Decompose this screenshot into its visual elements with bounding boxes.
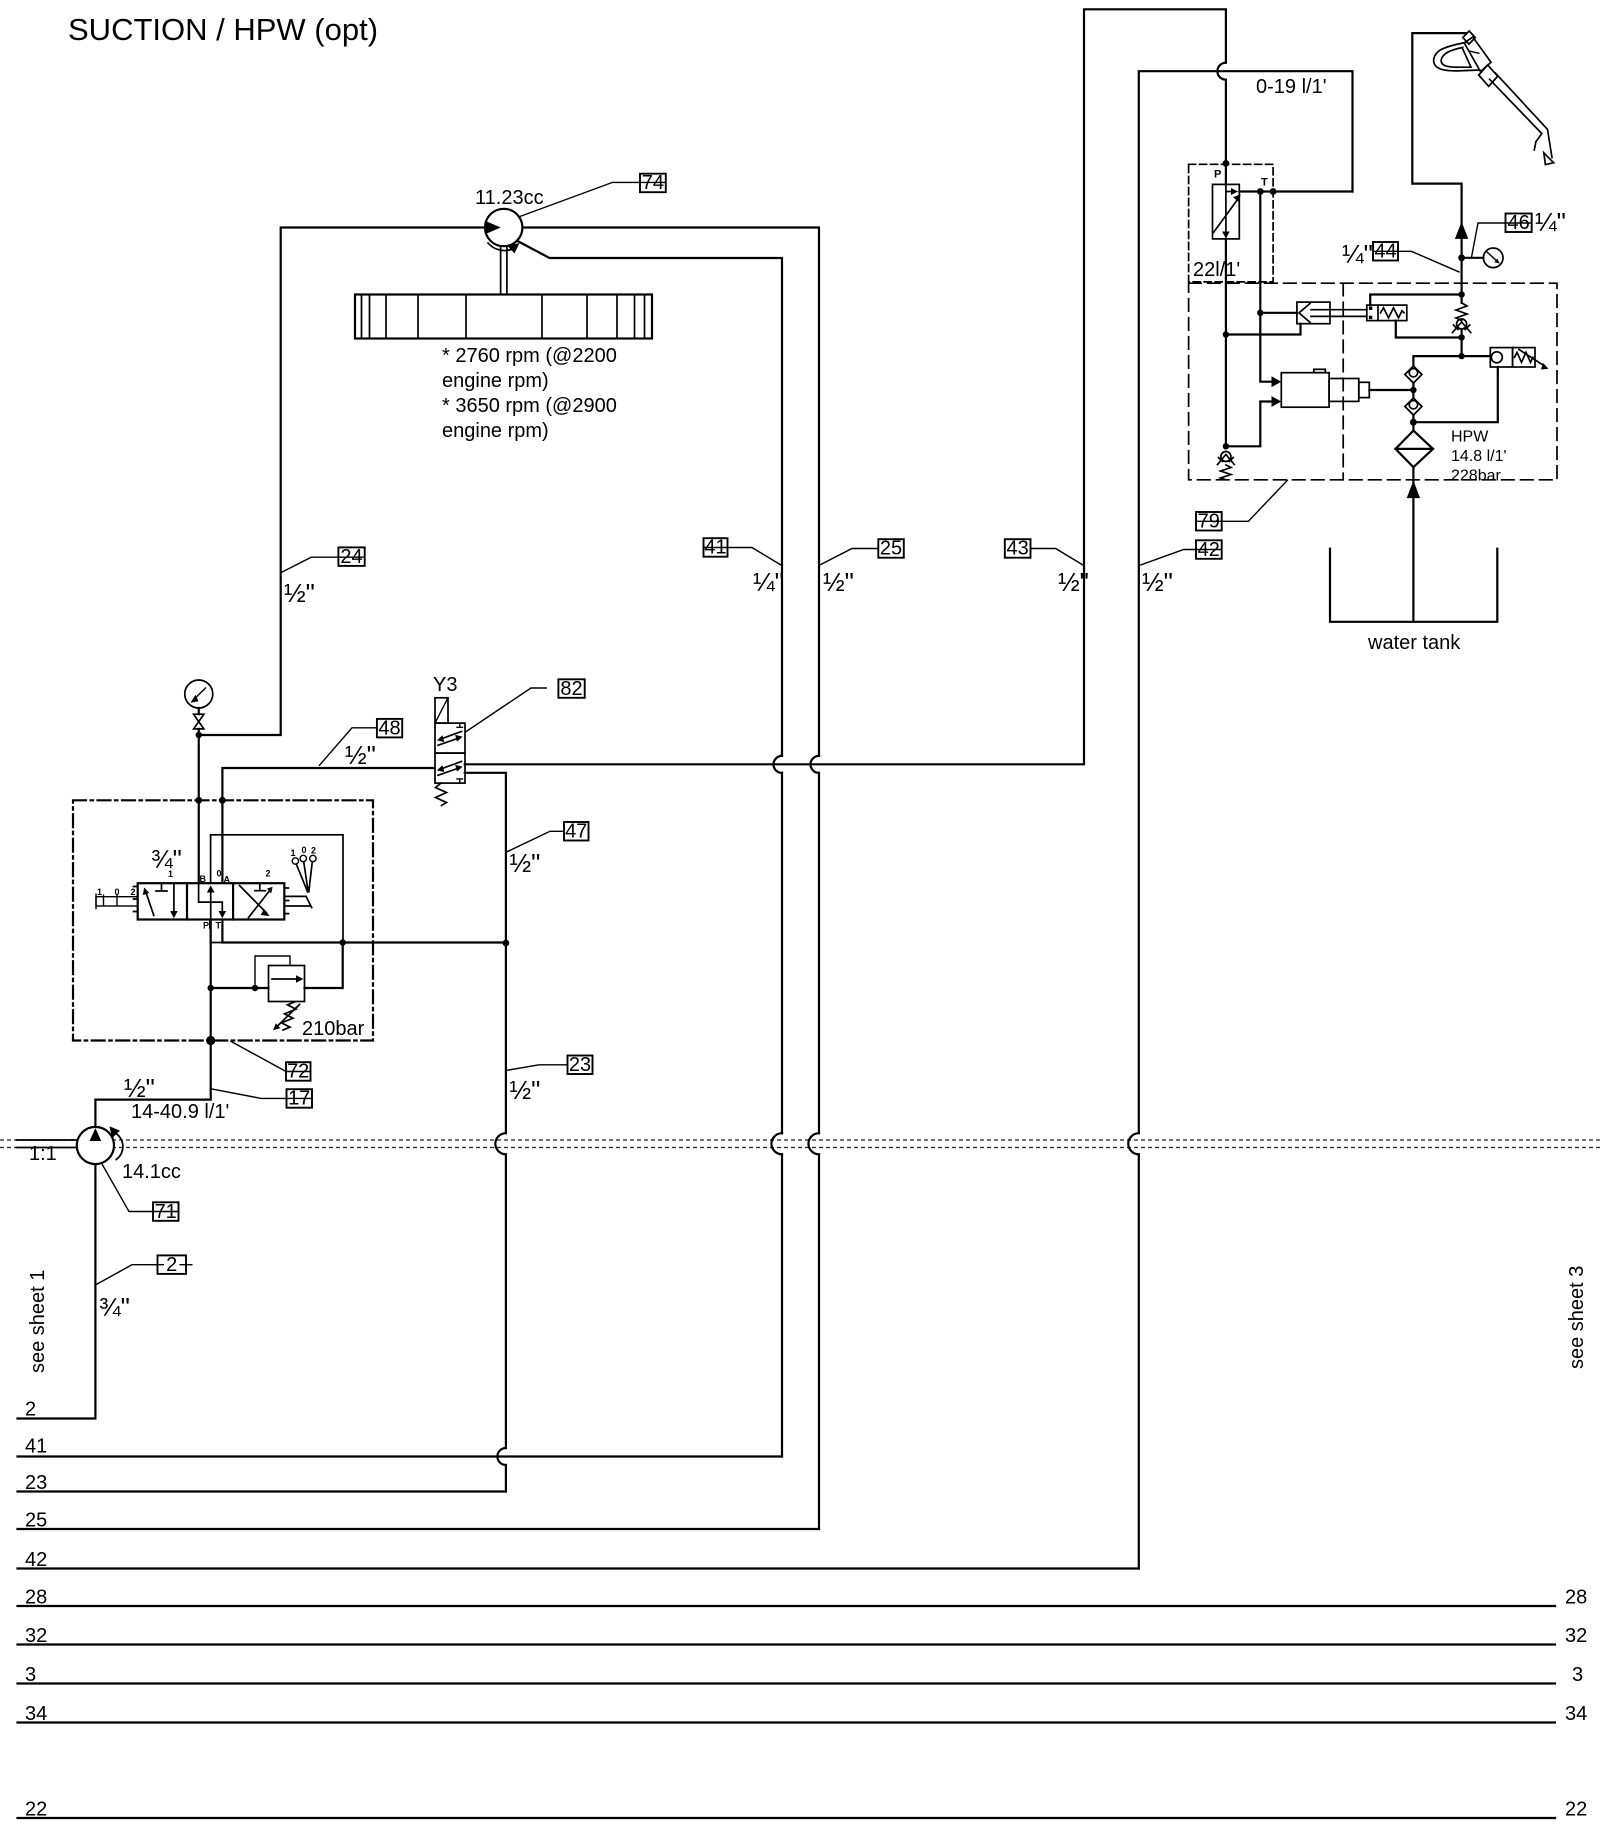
svg-text:11.23cc: 11.23cc [475,187,544,209]
svg-text:0: 0 [115,887,120,897]
svg-text:1:1: 1:1 [29,1143,57,1165]
svg-text:32: 32 [25,1625,47,1647]
svg-text:14.8 l/1': 14.8 l/1' [1451,448,1507,465]
svg-text:48: 48 [378,717,400,739]
svg-text:22: 22 [25,1799,47,1821]
svg-text:14.1cc: 14.1cc [122,1161,181,1183]
svg-text:¼": ¼" [753,567,784,597]
svg-text:32: 32 [1565,1625,1587,1647]
svg-text:74: 74 [642,172,664,194]
svg-text:14-40.9 l/1': 14-40.9 l/1' [131,1101,229,1123]
svg-text:* 2760 rpm (@2200: * 2760 rpm (@2200 [442,345,617,367]
svg-text:42: 42 [25,1549,47,1571]
svg-text:water tank: water tank [1367,632,1461,654]
svg-text:¼": ¼" [1342,239,1373,269]
svg-text:see sheet 1: see sheet 1 [27,1270,49,1373]
svg-text:228bar: 228bar [1451,468,1501,485]
svg-text:2: 2 [25,1399,36,1421]
svg-text:B: B [200,874,207,884]
svg-text:25: 25 [880,538,902,560]
svg-text:¾": ¾" [99,1292,130,1322]
svg-text:0: 0 [302,845,307,855]
svg-text:½": ½" [1058,567,1089,597]
svg-text:28: 28 [25,1587,47,1609]
svg-text:0-19 l/1': 0-19 l/1' [1256,76,1327,98]
svg-text:engine rpm): engine rpm) [442,370,549,392]
svg-text:28: 28 [1565,1587,1587,1609]
svg-text:½": ½" [124,1073,155,1103]
svg-text:¾": ¾" [151,844,182,874]
svg-text:2: 2 [166,1254,177,1276]
svg-text:½": ½" [1142,567,1173,597]
svg-text:½": ½" [510,1075,541,1105]
svg-text:82: 82 [560,678,582,700]
svg-text:47: 47 [565,821,587,843]
svg-text:2: 2 [131,887,136,897]
svg-text:2: 2 [311,846,316,856]
svg-text:3: 3 [1572,1664,1583,1686]
svg-text:0: 0 [217,869,222,879]
svg-text:25: 25 [25,1510,47,1532]
svg-text:22: 22 [1565,1799,1587,1821]
svg-text:T: T [1261,177,1268,189]
svg-text:A: A [224,875,231,885]
svg-text:SUCTION / HPW (opt): SUCTION / HPW (opt) [68,12,378,47]
svg-text:½": ½" [284,578,315,608]
svg-text:2: 2 [266,869,271,879]
svg-text:43: 43 [1006,538,1028,560]
svg-text:210bar: 210bar [302,1018,365,1040]
svg-text:see sheet 3: see sheet 3 [1566,1266,1588,1369]
svg-text:23: 23 [569,1054,591,1076]
svg-text:T: T [216,921,222,931]
svg-text:34: 34 [1565,1703,1587,1725]
svg-text:1: 1 [168,869,173,879]
svg-text:P: P [1214,169,1221,181]
svg-text:Y3: Y3 [433,674,457,696]
svg-text:engine rpm): engine rpm) [442,420,549,442]
svg-text:½": ½" [823,567,854,597]
svg-text:1: 1 [97,887,102,897]
svg-text:22l/1': 22l/1' [1193,259,1240,281]
svg-text:23: 23 [25,1472,47,1494]
svg-text:HPW: HPW [1451,429,1489,446]
svg-text:½": ½" [510,848,541,878]
svg-text:1: 1 [291,848,296,858]
svg-text:* 3650 rpm (@2900: * 3650 rpm (@2900 [442,395,617,417]
svg-text:3: 3 [25,1664,36,1686]
svg-text:¼": ¼" [1535,207,1566,237]
svg-text:½": ½" [345,740,376,770]
svg-text:41: 41 [25,1436,47,1458]
svg-text:34: 34 [25,1703,47,1725]
svg-text:P: P [203,921,209,931]
